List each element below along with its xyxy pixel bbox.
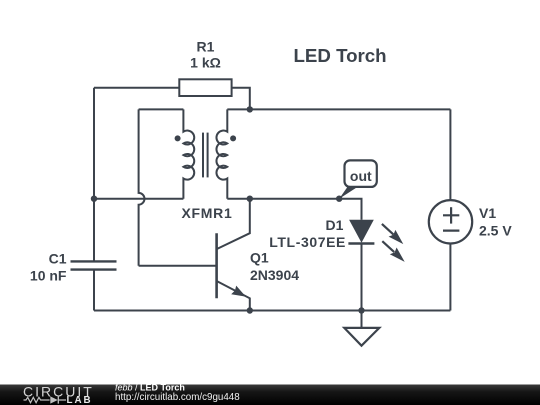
node out flag box	[345, 160, 377, 187]
wire XFMR primary top	[139, 108, 184, 110]
collector lead	[217, 199, 250, 249]
wire V1 top lead	[449, 109, 451, 200]
node LED / ground	[358, 307, 364, 313]
wire vertical with hop over y=198.7	[139, 109, 145, 265]
transformer XFMR1	[183, 109, 227, 198]
logo diode	[50, 396, 58, 403]
wire left rail lower	[93, 270, 95, 311]
svg-text:LAB: LAB	[67, 395, 93, 405]
voltage source V1	[429, 200, 472, 243]
LED D1 anode triangle	[349, 220, 374, 243]
capacitor C1	[71, 261, 117, 269]
footer background	[0, 385, 540, 405]
primary polarity dot	[175, 135, 181, 141]
plus sign	[443, 214, 459, 216]
node out	[336, 196, 342, 202]
resistor R1	[179, 79, 231, 96]
core lines	[202, 133, 204, 178]
svg-text:febb / LED Torch: febb / LED Torch	[115, 382, 185, 392]
logo resistor zigzag	[24, 397, 50, 402]
wire bottom rail	[94, 310, 450, 312]
wire base wire	[139, 265, 217, 267]
wire top net y=109	[227, 108, 450, 110]
transistor Q1	[217, 199, 250, 311]
wire ground stub	[361, 311, 363, 328]
LED light arrow 2	[382, 241, 394, 252]
primary winding	[183, 109, 194, 198]
wire LED bottom lead	[361, 244, 363, 311]
node R1/top net	[247, 106, 253, 112]
minus sign	[443, 230, 459, 232]
LED D1 cathode bar	[348, 242, 374, 244]
wire R1 right lead down	[232, 88, 250, 110]
emitter arrow	[231, 286, 246, 297]
svg-text:http://circuitlab.com/c9gu448: http://circuitlab.com/c9gu448	[115, 392, 240, 403]
base bar	[215, 233, 218, 298]
secondary winding	[216, 109, 227, 198]
node out flag pointer	[339, 185, 360, 199]
wire top-left horizontal to R1	[94, 87, 179, 89]
node collector / winding bottom	[247, 196, 253, 202]
wire winding-bottom-left to rail	[94, 198, 183, 200]
emitter lead	[217, 281, 250, 310]
LED light arrow 1	[382, 224, 405, 262]
wire collector net y=198.7 and LED top lead	[227, 199, 361, 220]
ground	[344, 328, 379, 346]
wire left rail upper	[93, 88, 95, 262]
node emitter / bottom rail	[247, 307, 253, 313]
node left rail / winding bottom	[91, 196, 97, 202]
wire V1 bottom lead	[449, 244, 451, 311]
secondary polarity dot	[230, 135, 236, 141]
